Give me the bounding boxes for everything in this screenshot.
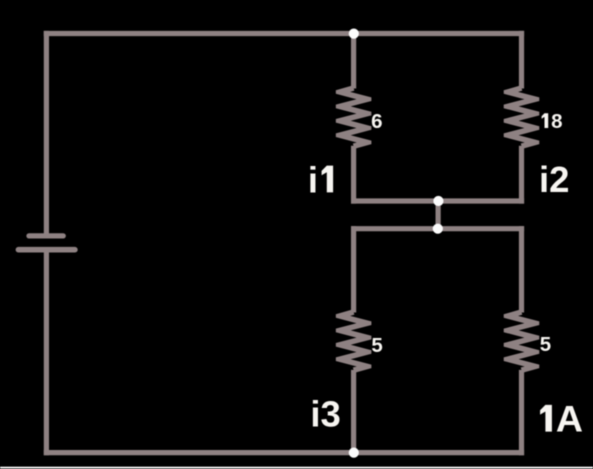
svg-text:i3: i3: [310, 393, 340, 434]
node C (loop2 top junction dot): [433, 224, 443, 234]
battery V1 (voltage source): [18, 236, 75, 250]
svg-text:6: 6: [371, 110, 382, 133]
wire: source branch lower (R4 down to bottom wire): [519, 370, 524, 455]
resistor R3 (5 ohm): [336, 309, 372, 372]
wire: i3 branch upper (loop2 top down to R3): [351, 226, 356, 312]
svg-text:5: 5: [371, 334, 382, 357]
wire: i2 branch upper (top-right corner down to R2): [519, 31, 524, 89]
svg-text:5: 5: [540, 333, 551, 356]
svg-text:8: 8: [551, 110, 562, 133]
wire: loop2 top horizontal: [351, 226, 524, 231]
wire: i2 branch lower (R2 down to loop1 bottom): [519, 146, 524, 204]
wire: bottom horizontal (battery side to bottom-right corner): [44, 450, 524, 455]
value label: 18 (R2): [542, 110, 563, 133]
svg-text:i2: i2: [539, 159, 569, 200]
wire: source branch upper (loop2 top down to R4): [519, 226, 524, 312]
wire: middle connector (node B to node C): [436, 201, 441, 229]
node A (top junction dot): [349, 28, 359, 38]
wire: top horizontal (battery side to top-right corner): [44, 31, 524, 36]
wire: i1 branch lower (R1 down to loop1 bottom): [351, 146, 356, 204]
wire: i3 branch lower (R3 down to bottom wire): [351, 370, 356, 455]
current label: i1: [308, 159, 333, 200]
wire: left vertical lower (battery - down to bottom-left corner): [44, 250, 49, 456]
wire: i1 branch upper (node A down to R1): [351, 34, 356, 89]
svg-text:i: i: [308, 159, 318, 200]
bottom edge light line: [0, 467, 593, 469]
resistor R1 (6 ohm): [336, 85, 372, 148]
node B (loop1 bottom junction dot): [433, 196, 443, 206]
node D (bottom wire junction dot): [349, 448, 359, 458]
current label: 1A (current source value): [540, 398, 583, 440]
wire: loop1 bottom horizontal: [351, 198, 524, 203]
wire: left vertical upper (top-left corner down to battery +): [44, 31, 49, 234]
resistor R2 (18 ohm): [504, 85, 540, 148]
resistor R4 (5 ohm): [504, 309, 540, 372]
svg-text:A: A: [556, 398, 583, 440]
